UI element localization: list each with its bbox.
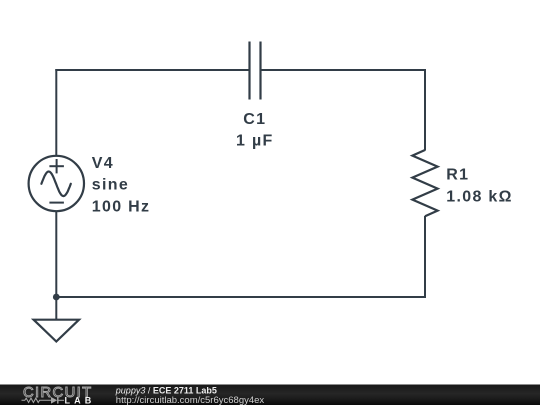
CircuitLab logo circuit glyph (wire, resistor, diode): [22, 397, 65, 404]
wire: bottom horizontal (ground node to bottom-right corner): [56, 296, 426, 298]
footer bar: [0, 385, 540, 405]
value label sine: [92, 177, 129, 194]
CircuitLab logo wordmark CIRCUIT: [23, 385, 92, 401]
svg-text:100 Hz: 100 Hz: [92, 198, 151, 215]
wire: left vertical upper (node A to V4 top): [55, 69, 57, 156]
CircuitLab logo wordmark LAB: [65, 396, 96, 405]
value label 1 µF: [236, 133, 274, 150]
footer title text: puppy3 / ECE 2711 Lab5: [115, 386, 217, 396]
junction node (ground node): [53, 294, 60, 301]
svg-text:http://circuitlab.com/c5r6yc68: http://circuitlab.com/c5r6yc68gy4ex: [116, 395, 265, 405]
value label 1.08 kΩ: [446, 188, 512, 205]
svg-text:sine: sine: [92, 177, 129, 194]
wire: left vertical lower (V4 bottom to ground node): [55, 211, 57, 298]
resistor R1: [412, 150, 437, 216]
svg-text:LAB: LAB: [65, 396, 96, 405]
svg-text:C1: C1: [243, 111, 266, 128]
capacitor C1: [250, 42, 261, 100]
wire: right vertical lower (R1 bottom to bottom-right corner): [424, 216, 426, 298]
footer url text: http://circuitlab.com/c5r6yc68gy4ex: [116, 395, 265, 405]
svg-text:V4: V4: [92, 155, 114, 172]
voltage source V4: [29, 156, 84, 211]
value label 100 Hz: [92, 198, 151, 215]
label C1: [243, 111, 266, 128]
ground symbol: [34, 297, 79, 342]
label R1: [446, 166, 469, 183]
label V4: [92, 155, 114, 172]
svg-text:R1: R1: [446, 166, 469, 183]
svg-text:1 µF: 1 µF: [236, 133, 274, 150]
wire: top horizontal right (C1 right plate to node B): [261, 69, 427, 71]
wire: top horizontal left (node A to C1 left plate): [55, 69, 249, 71]
svg-text:1.08 kΩ: 1.08 kΩ: [446, 188, 512, 205]
wire: right vertical upper (node B to R1 top): [424, 69, 426, 151]
